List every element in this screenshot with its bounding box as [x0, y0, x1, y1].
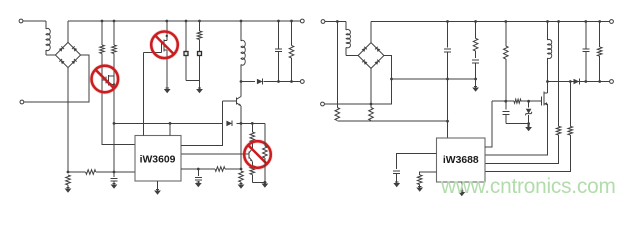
wire U2 left pin2 — [420, 172, 437, 175]
wire L4 down — [547, 58, 549, 82]
junction bottom rail left — [67, 171, 70, 174]
no-symbol over Q2 — [151, 32, 178, 59]
output terminal bottom-right (left circuit) — [300, 80, 304, 84]
wire bridge2 bottom down — [370, 68, 372, 107]
wire rail down x505.8 — [505, 22, 507, 47]
junction rail x278.5 — [277, 20, 280, 23]
resistor R19 — [597, 47, 602, 56]
resistor R13 — [335, 108, 340, 121]
wire U2 gate pin — [485, 101, 492, 147]
junction rail x475.6 — [474, 20, 477, 23]
wire Q4 leg bottom — [252, 175, 265, 183]
wire y79 line — [392, 78, 476, 80]
resistor R10 — [289, 46, 294, 59]
inductor L4 (transformer primary) — [548, 39, 552, 58]
transistor Q3 (NPN) — [223, 97, 241, 106]
junction x391.5 y79 — [390, 78, 393, 81]
wire x114 down — [113, 54, 115, 173]
ground under R6 — [238, 182, 245, 189]
junction output x585.8 — [584, 80, 587, 83]
resistor R16 (gate) — [514, 99, 521, 103]
junction pinC x198.3 — [197, 168, 200, 171]
wire rail down x599.7 — [599, 22, 601, 48]
wire rail down x585.8 — [585, 22, 587, 49]
junction output x599.7 — [598, 80, 601, 83]
junction rail x558.6 — [557, 20, 560, 23]
wire C6 down — [447, 52, 449, 138]
junction rail x241 — [240, 20, 243, 23]
junction gate x528.6 — [527, 100, 530, 103]
wire R19 down — [599, 56, 601, 81]
ground under C1 — [111, 183, 118, 188]
resistor R2 below bottom-left — [66, 175, 71, 185]
wire input top (right) — [325, 21, 346, 23]
ground under R2 — [65, 185, 72, 193]
wire rail down x186 — [185, 21, 187, 51]
junction x475.6 y79 — [474, 78, 477, 81]
wire U1 top pin2 — [169, 123, 171, 135]
ground under x475.6 — [472, 86, 479, 91]
svg-text:iW3688: iW3688 — [443, 155, 479, 166]
wire U1 top pin1 (gate drive) — [143, 53, 145, 136]
wire x570.3 down — [569, 82, 571, 127]
output terminal top-right (left circuit) — [300, 19, 304, 23]
resistor R4 — [112, 45, 117, 54]
junction rail x166.8 — [165, 20, 168, 23]
capacitor C5 — [195, 169, 202, 183]
wire x186 down to U — [185, 56, 187, 81]
resistor R20 — [417, 175, 422, 185]
wire R18 to pin — [485, 135, 570, 171]
transistor Q4 (NPN, removed) — [181, 149, 252, 162]
wire U2 left pin1 — [397, 154, 437, 169]
ground under x199.5 — [196, 88, 203, 93]
wire rail down x102 — [101, 21, 103, 45]
wire R15 down — [505, 59, 507, 110]
resistor R3 — [100, 45, 105, 54]
junction x447.5 y79 — [446, 78, 449, 81]
wire snubber line y123 — [113, 122, 265, 125]
wire rail down x166.8 — [166, 21, 168, 41]
junction rail x547.5 — [546, 20, 549, 23]
wire U1 right pinA — [181, 101, 223, 145]
junction rail x447.5 — [446, 20, 449, 23]
wire rail down x278.5 — [278, 21, 280, 49]
wire input top — [23, 20, 46, 22]
wire C9 down — [585, 51, 587, 81]
capacitor C4 — [275, 49, 282, 52]
ground under R20 — [416, 185, 423, 192]
resistor R14 — [473, 38, 478, 51]
junction x371 y104 — [370, 103, 373, 106]
capacitor C1 below rail — [111, 172, 118, 185]
resistor R7 — [250, 132, 255, 142]
transistor Q1 (MOSFET, removed) — [102, 75, 115, 86]
input terminal bottom-left (right circuit) — [321, 102, 325, 106]
resistor R12 — [369, 108, 374, 121]
diode D2 — [257, 79, 263, 85]
wire Q4 emitter down — [251, 161, 253, 165]
wire bridge bottom down — [67, 68, 69, 172]
wire bottom rail (left circuit) — [68, 171, 135, 173]
wire C4 down — [278, 52, 280, 82]
resistor R8 — [250, 166, 255, 175]
inductor L2 — [241, 40, 245, 65]
zener diode Z1 — [525, 101, 531, 123]
wire R17 to pin — [485, 135, 559, 164]
junction input x337.3 — [336, 20, 339, 23]
junction output x547.5 — [546, 80, 549, 83]
junction gate line x505.8 — [504, 100, 507, 103]
wire x102 to IC pin — [102, 54, 135, 145]
wire rail down x547.5 — [547, 22, 549, 41]
wire R9 down — [264, 158, 266, 182]
bridge rectifier BR1 — [55, 42, 80, 67]
capacitor C9 — [582, 49, 589, 52]
wire Q5 source down — [485, 104, 548, 155]
resistor R15 — [504, 46, 509, 59]
output terminal bottom-right (right circuit) — [610, 80, 614, 84]
wire Q2 source down — [166, 52, 168, 89]
wire U joint — [186, 79, 200, 81]
junction output x291.5 — [290, 80, 293, 83]
capacitor C2 (box) — [184, 52, 188, 56]
wire gate line — [492, 100, 542, 102]
input terminal bottom-left — [20, 100, 24, 104]
capacitor C3 (box) — [198, 52, 202, 56]
output terminal top-right (right circuit) — [610, 20, 614, 24]
junction x114 bottom rail — [113, 171, 116, 174]
ground under C10 — [393, 182, 400, 187]
transistor Q5 (MOSFET) — [542, 92, 548, 106]
wire R14 to C7 — [475, 51, 477, 58]
wire rail down x199.5 — [199, 21, 201, 31]
junction rail x186 — [185, 20, 188, 23]
wire Q3 emitter down — [240, 106, 242, 169]
no-symbol over Q4 — [244, 141, 271, 168]
wire Q5 drain up — [547, 82, 549, 94]
op-amp U2 iW3688 — [437, 138, 486, 182]
wire bridge top to rail — [67, 21, 69, 42]
wire x252.3 down — [251, 123, 253, 132]
wire C7 down — [475, 63, 477, 88]
diode D1 — [226, 121, 232, 127]
junction rail x291.5 — [290, 20, 293, 23]
ground under Z1 — [525, 124, 532, 132]
svg-text:www.cntronics.com: www.cntronics.com — [440, 175, 616, 198]
junction rail x114 — [113, 20, 116, 23]
input terminal top-left (right circuit) — [321, 20, 325, 24]
junction rail x102 — [101, 20, 104, 23]
ground under C5 — [195, 182, 202, 187]
ground under Q2 — [164, 88, 171, 93]
svg-text:iW3609: iW3609 — [140, 154, 176, 165]
wire x558.6 down — [558, 22, 560, 127]
wire x199.5 mid — [199, 40, 201, 52]
wire R7 to Q4 — [251, 142, 253, 149]
ground U2 bottom — [458, 182, 465, 196]
resistor R6 — [239, 171, 244, 182]
junction rail x199.5 — [198, 20, 201, 23]
resistor R9 — [263, 146, 268, 158]
inductor L1 — [46, 21, 55, 55]
ground U1 bottom — [154, 181, 161, 195]
junction y123 x252.3 — [251, 122, 254, 125]
ground under x264.9 — [262, 182, 269, 187]
diode D3 — [574, 79, 580, 85]
no-symbol over Q1 — [92, 66, 119, 93]
wire x337.3 down — [336, 22, 338, 108]
junction rail x599.7 — [598, 20, 601, 23]
wire bridge2 right down — [325, 56, 392, 105]
capacitor C7 — [472, 60, 479, 63]
junction emitter/pinC line — [240, 168, 243, 171]
junction x528.6 bottom — [527, 122, 530, 125]
resistor R18 — [568, 126, 573, 135]
junction y123 x170 — [169, 122, 172, 125]
capacitor C8 — [502, 112, 509, 115]
wire R12 to line2 — [370, 120, 372, 123]
wire rail down x291.5 — [291, 21, 293, 46]
op-amp U1 iW3609 — [135, 136, 181, 182]
junction output x278.5 — [277, 80, 280, 83]
wire bridge right to bottom terminal — [24, 55, 89, 102]
wire output line (right circuit) — [548, 81, 610, 83]
junction output line x241 — [240, 80, 243, 83]
input terminal top-left — [19, 19, 23, 23]
junction x264.9 bottom — [264, 181, 267, 184]
junction x447.5 line2 — [446, 120, 449, 123]
inductor L3 — [346, 22, 358, 56]
resistor R11 (pinC horizontal) — [215, 167, 225, 172]
wire rail down x447.5 — [447, 22, 449, 48]
capacitor C10 — [393, 171, 400, 183]
junction rail x505.8 — [504, 20, 507, 23]
wire L2 to Q3 collector — [240, 65, 242, 97]
junction output x570.3 — [569, 80, 572, 83]
transistor Q2 (MOSFET, removed) — [144, 40, 168, 53]
resistor R17 — [556, 126, 561, 135]
wire rail down x114 — [113, 21, 115, 45]
wire R10 down — [291, 58, 293, 82]
wire top rail (right circuit) — [371, 21, 610, 23]
wire bridge2 top to rail — [370, 22, 372, 43]
wire line2 (startup sense) — [337, 120, 447, 122]
wire C8 down — [506, 114, 529, 123]
wire x264.9 down — [264, 123, 266, 146]
resistor R5 — [197, 31, 202, 40]
watermark — [440, 175, 616, 198]
wire output line (left circuit) — [241, 81, 300, 83]
wire U1 right pinC — [181, 168, 241, 170]
bridge rectifier BR2 — [358, 43, 384, 69]
capacitor C6 — [444, 49, 451, 52]
wire rail down x475.6 — [475, 22, 477, 39]
junction rail x585.8 — [584, 20, 587, 23]
resistor R1 (bottom rail horizontal) — [86, 170, 96, 175]
wire x199.5 down — [199, 56, 201, 89]
wire top rail (left circuit) — [68, 20, 300, 22]
wire rail down x241 — [240, 21, 242, 41]
junction emitter/diode line — [240, 122, 243, 125]
